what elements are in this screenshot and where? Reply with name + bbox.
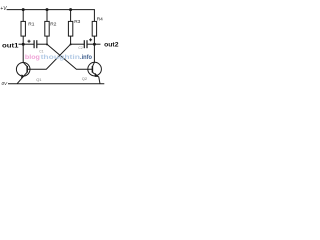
wire R4 top [93,10,95,22]
wire out1 stub [19,43,24,45]
wire cross diagonal node L to Q2 base [47,44,92,69]
wire Q1 collector [22,44,24,62]
wire top rail +V [7,9,95,11]
svg-text:out2: out2 [104,42,119,49]
wire R3 bottom to node R [70,36,72,44]
capacitor C2 [78,38,92,50]
svg-text:C2: C2 [78,46,82,50]
wire R1 bottom to out1 node [22,36,24,44]
svg-text:C1: C1 [39,49,43,53]
svg-text:Q1: Q1 [36,77,42,82]
wire R3 top [70,10,72,22]
node dot out2 [93,43,96,46]
wire out2 stub [94,43,100,45]
capacitor C1 [28,40,44,54]
resistor R1 [21,21,35,36]
resistor R4 [92,17,103,36]
resistor R2 [45,21,57,36]
wire Q2 collector [93,44,95,62]
svg-text:R1: R1 [28,22,34,28]
transistor Q2 [82,62,102,84]
wire R1 top [22,10,24,22]
wire R4 bottom to out2 node [93,36,95,44]
wire cross diagonal node R to Q1 base [28,44,71,69]
svg-text:0V: 0V [2,81,9,86]
wire R2 bottom to node L [46,36,48,44]
svg-text:thoughtin: thoughtin [41,54,81,61]
wire C1 to node L [37,43,47,45]
svg-text:out1: out1 [2,42,19,49]
wire bottom rail 0V [8,83,104,85]
node dot out1 [22,43,25,46]
svg-text:Q2: Q2 [82,76,88,81]
svg-text:R3: R3 [74,19,80,25]
svg-text:R4: R4 [97,17,103,23]
transistor Q1 [16,62,42,83]
svg-text:+V: +V [0,6,7,12]
wire C2 to out2 node [87,43,94,45]
resistor R3 [68,19,80,36]
svg-text:R2: R2 [50,22,56,28]
wire out1 node to C1 [23,43,34,45]
node dot rail R2 [46,8,49,11]
svg-text:.info: .info [80,54,92,61]
wire R2 top [46,10,48,22]
node dot rail R3 [69,8,72,11]
node L junction [46,43,48,45]
node dot rail R1 [22,8,25,11]
wire node R to C2 [71,43,85,45]
node R junction [70,43,72,45]
svg-text:blog: blog [25,54,40,61]
